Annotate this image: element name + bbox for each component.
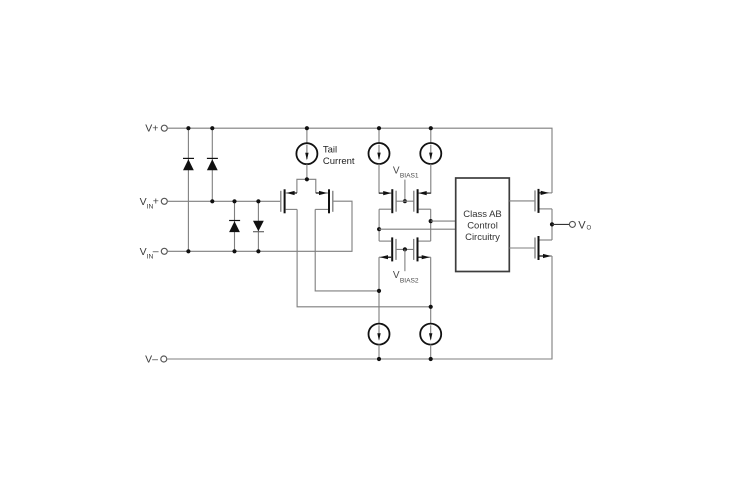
transistor Q2 (output bottom) — [535, 236, 552, 260]
node dot V+ rail at I3 — [429, 126, 433, 130]
wire output to terminal — [552, 223, 569, 225]
current source I3 — [420, 143, 441, 164]
node dot VIN+ at column C — [232, 199, 236, 203]
svg-text:V: V — [140, 246, 147, 258]
node dot V+ rail at tail — [305, 126, 309, 130]
wire right bias column from V+ — [430, 128, 432, 143]
wire M5 drain down to M7 drain — [378, 209, 380, 241]
terminal V+ — [145, 123, 167, 135]
wire diode column D (VIN+ to VIN-) — [257, 201, 259, 251]
node VBIAS1 gate junction — [403, 199, 407, 203]
node dot V- rail at I5 — [429, 357, 433, 361]
wire tail bar — [297, 179, 316, 193]
node dot VIN- at column C — [232, 249, 236, 253]
node dot V+ rail at column B — [210, 126, 214, 130]
svg-text:BIAS2: BIAS2 — [400, 278, 419, 285]
transistor M5 (cascode PMOS left) — [379, 189, 414, 213]
svg-text:–: – — [153, 245, 159, 257]
wire I3 to M6 source — [419, 164, 431, 193]
svg-text:V–: V– — [145, 354, 158, 366]
wire VBIAS2 stub — [404, 249, 406, 271]
node dot V+ rail at I2 — [377, 126, 381, 130]
wire VIN+ rail — [168, 200, 280, 202]
svg-text:V: V — [393, 270, 400, 281]
current source I5 — [420, 324, 441, 345]
terminal VIN+ — [140, 196, 168, 211]
node left column tap — [377, 227, 381, 231]
diode D1 — [183, 158, 194, 170]
diode D2 — [207, 158, 218, 170]
wire VIN- rail to right diff gate — [168, 201, 352, 251]
current source I1 tail — [296, 143, 317, 164]
label VBIAS2 — [393, 270, 419, 284]
svg-text:Tail: Tail — [323, 145, 337, 156]
wire I2 to M5 source — [379, 164, 391, 193]
svg-text:V: V — [578, 219, 586, 231]
wire M1 drain to right cascode source node — [297, 209, 431, 306]
node right column tap — [429, 219, 433, 223]
transistor M2 (diff pair right PMOS) — [315, 189, 333, 213]
diode D4 — [253, 221, 264, 232]
block Class AB Control Circuitry U1 — [456, 178, 510, 272]
label Tail Current — [323, 145, 355, 168]
wire tail from V+ rail — [306, 128, 308, 143]
wire output node vertical — [551, 209, 553, 240]
wire left tap to Class AB box — [379, 228, 456, 230]
node dot V- rail at I4 — [377, 357, 381, 361]
wire VBIAS1 stub — [404, 180, 406, 202]
node dot V+ rail at column A — [186, 126, 190, 130]
diode D3 — [229, 221, 240, 233]
svg-text:Control: Control — [467, 221, 498, 232]
wire M2 drain to left cascode source node — [315, 209, 379, 291]
transistor M6 (cascode PMOS right) — [414, 189, 431, 213]
svg-text:BIAS1: BIAS1 — [400, 173, 419, 180]
node dot VIN+ at column B — [210, 199, 214, 203]
wire I5 to V- rail — [430, 345, 432, 360]
node dot VIN+ at column D — [256, 199, 260, 203]
node output junction — [550, 222, 554, 226]
wire M8 source down to I5 — [430, 257, 432, 324]
terminal VIN- — [140, 245, 168, 260]
wire V- rail — [167, 256, 552, 359]
transistor M1 (diff pair left PMOS) — [281, 189, 297, 213]
node left lower junction — [377, 289, 381, 293]
wire I4 to V- rail — [378, 345, 380, 360]
transistor Q1 (output top) — [535, 189, 552, 213]
wire right tap to Class AB box — [431, 220, 456, 222]
svg-text:Circuitry: Circuitry — [465, 232, 500, 243]
svg-text:Class AB: Class AB — [463, 209, 502, 220]
svg-text:Current: Current — [323, 156, 355, 167]
node VBIAS2 gate junction — [403, 247, 407, 251]
node dot VIN- at column D — [256, 249, 260, 253]
transistor M8 (cascode NMOS right) — [414, 237, 431, 261]
current source I2 — [369, 143, 390, 164]
label VBIAS1 — [393, 165, 419, 179]
transistor M7 (cascode NMOS left) — [379, 237, 414, 261]
wire M6 drain down to M8 drain — [430, 209, 432, 241]
wire box to output PMOS gate — [509, 200, 534, 202]
wire diode column A (V+ to VIN-) — [187, 128, 189, 251]
node right lower junction — [429, 305, 433, 309]
node dot VIN- at column A — [186, 249, 190, 253]
terminal VO — [569, 219, 591, 231]
wire tail to diff pair — [306, 164, 308, 179]
wire V+ rail — [168, 128, 552, 193]
svg-text:+: + — [153, 196, 159, 208]
wire M7 source down to I4 — [378, 257, 380, 324]
svg-text:V: V — [140, 196, 147, 208]
svg-text:V: V — [393, 165, 400, 176]
wire diode column B (V+ to VIN+) — [211, 128, 213, 201]
terminal V- — [145, 354, 167, 366]
node dot tail bar — [305, 177, 309, 181]
wire box to output NMOS gate — [509, 247, 534, 249]
wire diode column C (VIN+ to VIN-) — [234, 201, 236, 251]
wire left bias column from V+ — [378, 128, 380, 143]
current source I4 — [369, 324, 390, 345]
svg-text:O: O — [587, 226, 592, 232]
svg-text:V+: V+ — [145, 123, 158, 135]
